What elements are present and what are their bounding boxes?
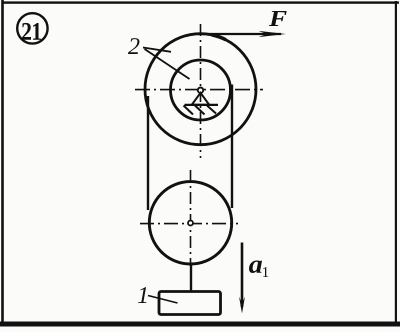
arrow a1 (241, 243, 244, 308)
frame left border (1, 0, 4, 326)
ground hatch 2 (195, 106, 205, 115)
rod from pulley to load (190, 263, 192, 292)
pulley lower circle (149, 182, 231, 264)
arrowhead of F (259, 31, 286, 37)
label F (269, 11, 287, 26)
wire rope to force F (201, 33, 281, 35)
pulley 2 outer circle (145, 34, 256, 145)
pin of pulley 2 axle (198, 88, 203, 93)
load 1 rectangle (159, 292, 221, 315)
frame right border (395, 1, 397, 325)
ground hatch 3 (207, 106, 216, 114)
leader line from 2 to outer circle (143, 48, 171, 52)
leader line from 1 to load (148, 296, 178, 304)
leader line from 2 to inner circle (145, 49, 190, 79)
tangent ink blob where rope leaves pulley 2 (212, 35, 226, 40)
centerline horizontal of pulley 2 (135, 89, 263, 91)
label 1 (138, 287, 147, 303)
pin of lower pulley axle (188, 221, 193, 226)
wire left rope (147, 96, 149, 210)
label 2 (128, 38, 139, 54)
frame bottom border (0, 322, 400, 327)
badge label 21 (22, 23, 31, 40)
centerline vertical of pulley lower (190, 170, 192, 266)
wire right rope (231, 85, 233, 209)
support triangle (192, 93, 209, 105)
ground hatch 1 (184, 106, 194, 115)
ground line (185, 104, 219, 106)
badge circle 21 (17, 13, 47, 43)
arrowhead a1 (239, 297, 245, 314)
centerline horizontal of pulley lower (140, 223, 238, 225)
frame top border (3, 1, 399, 3)
pulley 2 inner circle (171, 60, 231, 120)
centerline vertical of pulley 2 (200, 24, 202, 158)
label a1 (249, 260, 262, 273)
